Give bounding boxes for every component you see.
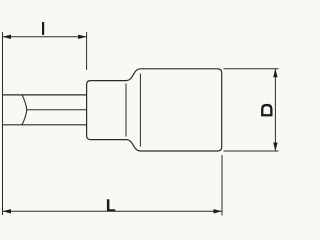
hex bit shaft bottom edge	[3, 124, 88, 126]
tangent edge line at neck/fillet start	[125, 84, 127, 137]
arrowhead l right	[78, 35, 87, 39]
wire: left extension/object line (bit tip edge + extension for l and L dims)	[2, 32, 4, 215]
extension line right of l dimension	[86, 32, 88, 70]
label l	[42, 22, 44, 35]
tangent edge line at body/fillet end	[139, 74, 141, 147]
hex flat mid line	[27, 109, 87, 111]
dimension line D	[274, 69, 276, 151]
label D (rotated)	[261, 104, 272, 117]
hex bit tip chamfer chevron	[22, 95, 27, 125]
hex bit shaft top edge	[3, 94, 88, 96]
arrowhead l left	[3, 35, 12, 39]
arrowhead L right	[214, 209, 223, 213]
socket body outline	[87, 69, 222, 151]
arrowhead D bottom	[273, 143, 277, 152]
extension line L right	[221, 155, 223, 216]
extension line D bottom	[224, 150, 279, 152]
label L	[107, 199, 115, 211]
arrowhead L left	[3, 209, 12, 213]
extension line D top	[224, 68, 279, 70]
dimension line L	[3, 210, 223, 212]
arrowhead D top	[273, 69, 277, 78]
dimension line l	[3, 36, 87, 38]
